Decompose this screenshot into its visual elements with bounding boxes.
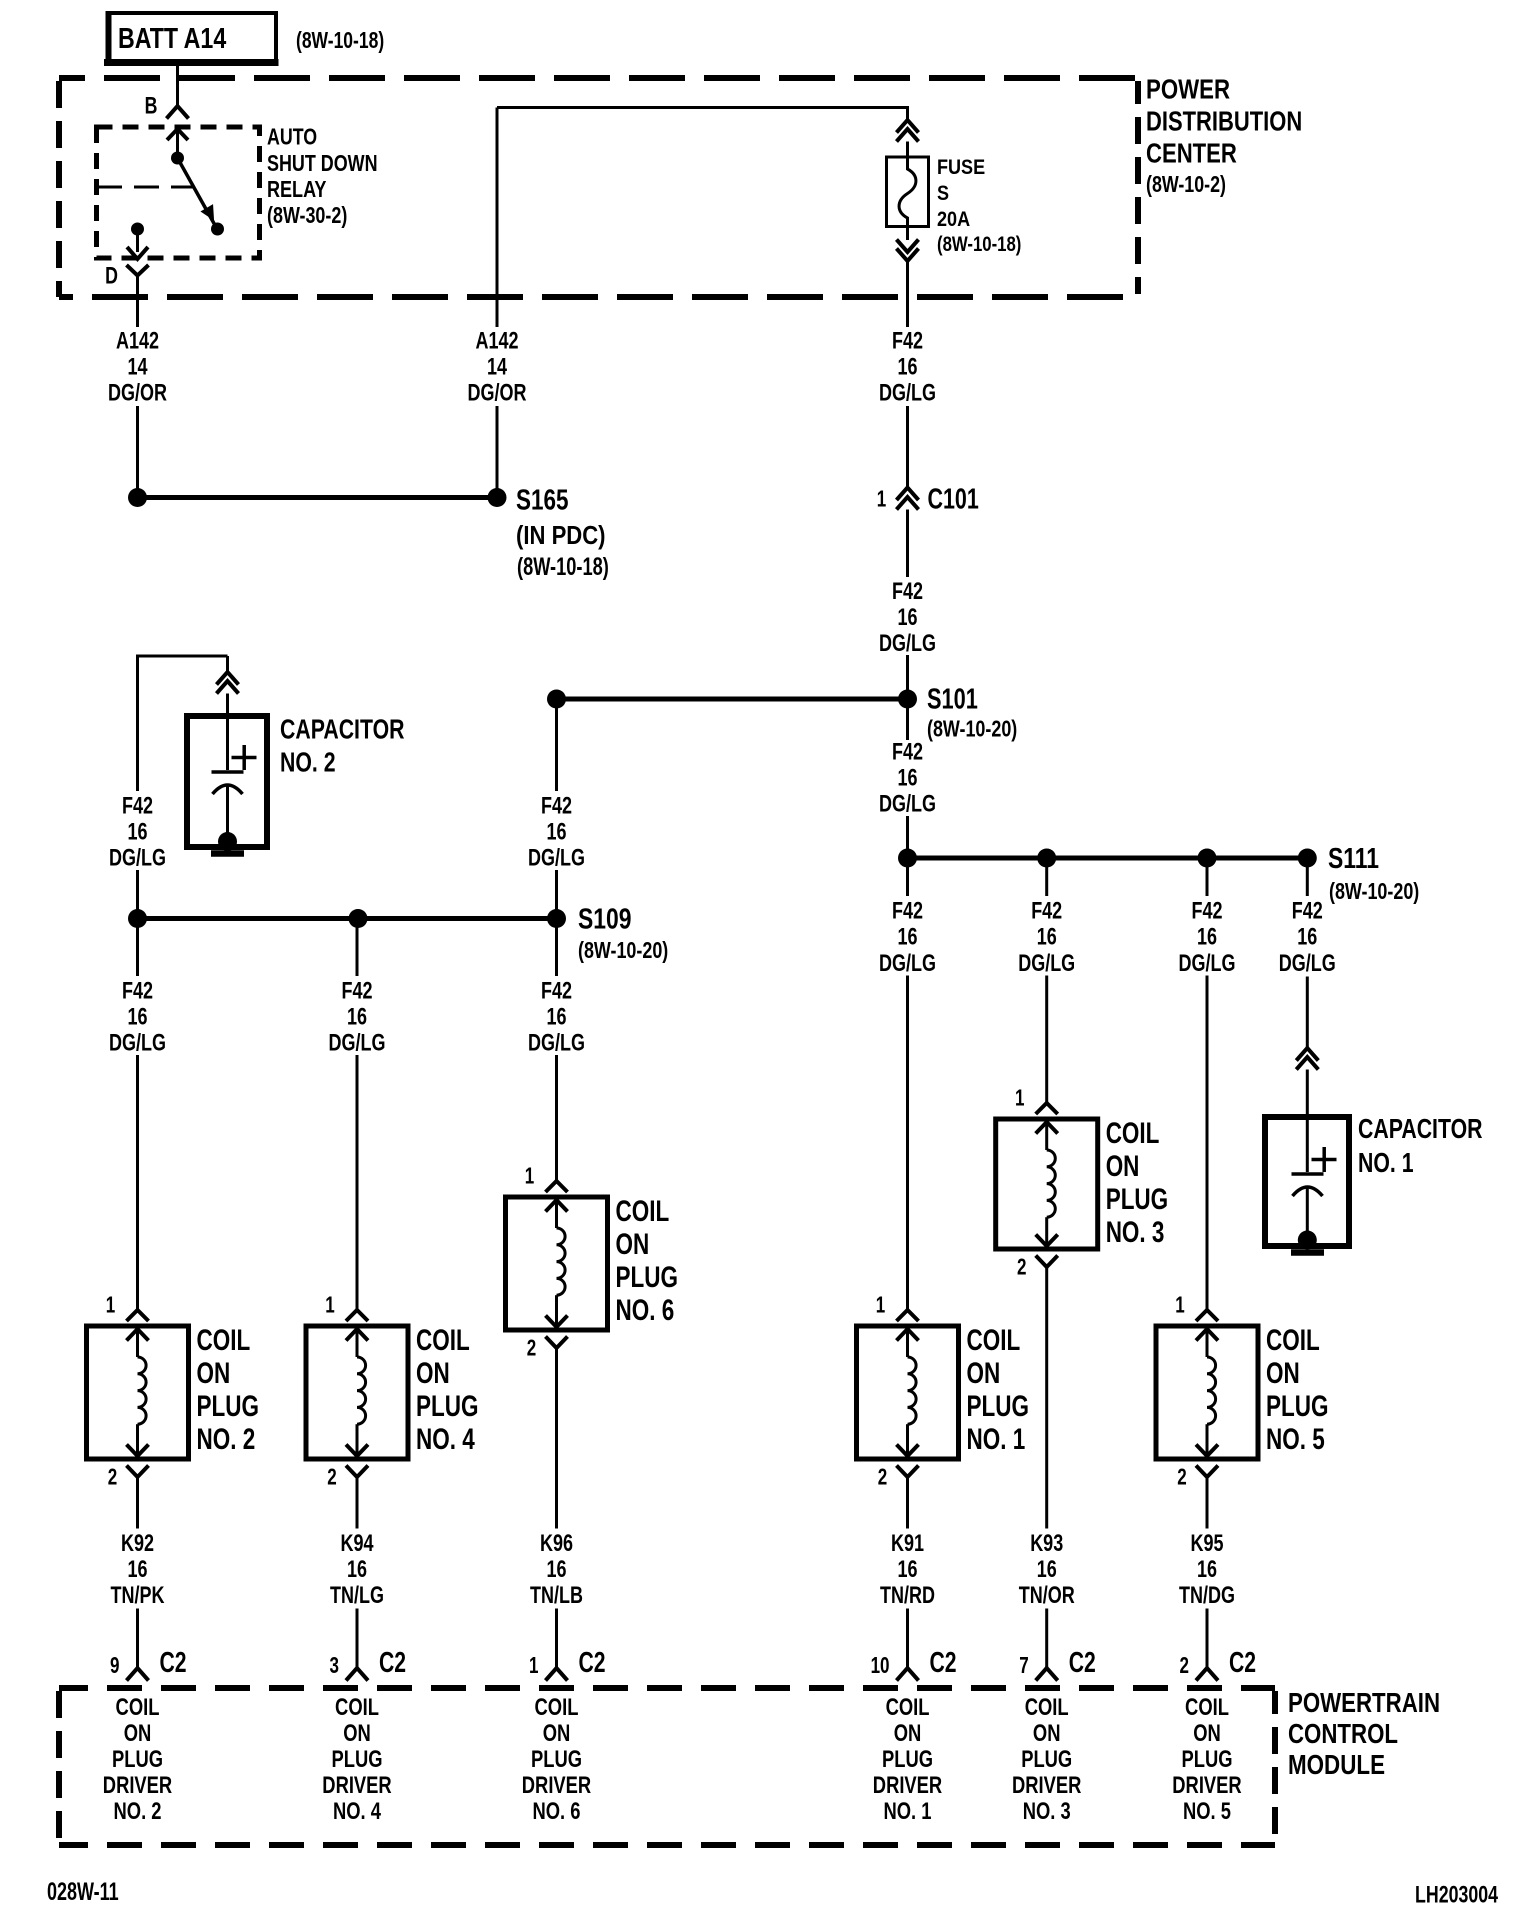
svg-text:TN/LB: TN/LB bbox=[530, 1583, 583, 1609]
connector C2 pin 7 bbox=[1019, 1609, 1096, 1681]
label COIL ON PLUG DRIVER NO. 5 bbox=[1172, 1692, 1242, 1824]
svg-text:TN/RD: TN/RD bbox=[880, 1583, 935, 1609]
svg-text:1: 1 bbox=[325, 1293, 334, 1318]
label COIL ON PLUG NO. 4 bbox=[416, 1323, 478, 1456]
wire capacitor no 2 feed bbox=[109, 655, 227, 911]
svg-text:F42: F42 bbox=[892, 328, 923, 354]
svg-text:MODULE: MODULE bbox=[1288, 1750, 1385, 1781]
svg-text:1: 1 bbox=[106, 1293, 115, 1318]
svg-text:DG/LG: DG/LG bbox=[879, 631, 936, 657]
svg-text:C2: C2 bbox=[160, 1647, 187, 1679]
svg-text:F42: F42 bbox=[122, 793, 153, 819]
label POWER DISTRIBUTION CENTER bbox=[1146, 74, 1302, 197]
svg-text:K91: K91 bbox=[891, 1531, 924, 1557]
wire fuse to C101 bbox=[906, 406, 909, 488]
wire label K96 16 TN/LB bbox=[530, 1531, 583, 1609]
svg-text:ON: ON bbox=[616, 1227, 650, 1261]
svg-text:ON: ON bbox=[343, 1718, 371, 1746]
svg-text:COIL: COIL bbox=[1106, 1116, 1160, 1150]
svg-text:S165: S165 bbox=[516, 485, 568, 516]
svg-text:DG/OR: DG/OR bbox=[108, 380, 167, 406]
splice S101 bbox=[547, 684, 1017, 742]
ignition coil on plug no 2 bbox=[87, 1326, 189, 1459]
svg-text:NO. 5: NO. 5 bbox=[1266, 1422, 1325, 1456]
svg-text:F42: F42 bbox=[1031, 898, 1062, 924]
connector pin 1 of coil no 5 bbox=[1175, 1293, 1218, 1321]
wire feed to fuse bbox=[497, 106, 908, 109]
svg-text:(8W-10-18): (8W-10-18) bbox=[517, 552, 609, 581]
svg-text:CENTER: CENTER bbox=[1146, 138, 1237, 169]
svg-text:A142: A142 bbox=[116, 328, 159, 354]
svg-text:(8W-10-20): (8W-10-20) bbox=[927, 717, 1017, 743]
label COIL ON PLUG DRIVER NO. 2 bbox=[103, 1692, 173, 1824]
svg-text:C2: C2 bbox=[930, 1647, 957, 1679]
svg-text:16: 16 bbox=[127, 1004, 147, 1030]
relay pivot contact bbox=[171, 152, 184, 165]
svg-text:(8W-30-2): (8W-30-2) bbox=[267, 203, 347, 229]
svg-text:CAPACITOR: CAPACITOR bbox=[1358, 1113, 1483, 1145]
svg-text:ON: ON bbox=[196, 1356, 230, 1390]
svg-text:16: 16 bbox=[1297, 924, 1317, 950]
svg-text:DG/LG: DG/LG bbox=[109, 845, 166, 871]
svg-text:S111: S111 bbox=[1328, 841, 1379, 874]
svg-text:PLUG: PLUG bbox=[1181, 1744, 1232, 1772]
splice S109 bbox=[128, 902, 668, 964]
connector pin D bbox=[105, 263, 148, 327]
connector C2 pin 2 bbox=[1180, 1609, 1257, 1681]
in-line connector out of PDC bbox=[897, 227, 919, 328]
svg-text:S: S bbox=[937, 182, 949, 206]
svg-text:BATT A14: BATT A14 bbox=[118, 22, 227, 55]
svg-text:9: 9 bbox=[110, 1654, 119, 1679]
footer reference 028W-11 bbox=[47, 1877, 119, 1906]
svg-text:1: 1 bbox=[876, 1293, 885, 1318]
svg-text:DG/OR: DG/OR bbox=[468, 380, 527, 406]
svg-text:DISTRIBUTION: DISTRIBUTION bbox=[1146, 106, 1302, 137]
svg-text:NO. 5: NO. 5 bbox=[1183, 1796, 1231, 1824]
svg-text:(8W-10-20): (8W-10-20) bbox=[1329, 879, 1419, 905]
svg-text:2: 2 bbox=[1180, 1654, 1189, 1679]
svg-text:2: 2 bbox=[327, 1465, 336, 1490]
label COIL ON PLUG NO. 1 bbox=[966, 1323, 1028, 1456]
svg-text:COIL: COIL bbox=[886, 1692, 930, 1720]
svg-text:D: D bbox=[105, 263, 118, 289]
in-line connector to capacitor no 2 bbox=[217, 656, 239, 717]
in-line connector at PDC (fuse feed) bbox=[897, 106, 919, 157]
svg-text:(8W-10-18): (8W-10-18) bbox=[937, 233, 1021, 256]
label CAPACITOR NO. 1 bbox=[1358, 1113, 1483, 1179]
svg-text:TN/OR: TN/OR bbox=[1019, 1583, 1075, 1609]
svg-text:16: 16 bbox=[897, 1557, 917, 1583]
svg-text:COIL: COIL bbox=[1185, 1692, 1229, 1720]
fuse S 20A bbox=[887, 157, 929, 227]
wire label K95 16 TN/DG bbox=[1179, 1531, 1235, 1609]
svg-text:DG/LG: DG/LG bbox=[879, 791, 936, 817]
label CAPACITOR NO. 2 bbox=[280, 714, 405, 779]
label COIL ON PLUG DRIVER NO. 1 bbox=[873, 1692, 943, 1824]
svg-text:F42: F42 bbox=[892, 739, 923, 765]
svg-text:CONTROL: CONTROL bbox=[1288, 1719, 1398, 1750]
wire label K92 16 TN/PK bbox=[111, 1531, 166, 1609]
label COIL ON PLUG DRIVER NO. 6 bbox=[522, 1692, 592, 1824]
svg-text:ON: ON bbox=[894, 1718, 922, 1746]
wire label K91 16 TN/RD bbox=[880, 1531, 935, 1609]
svg-text:PLUG: PLUG bbox=[196, 1389, 258, 1423]
footer reference LH203004 bbox=[1415, 1882, 1498, 1908]
label COIL ON PLUG DRIVER NO. 4 bbox=[322, 1692, 392, 1824]
svg-text:TN/PK: TN/PK bbox=[111, 1583, 166, 1609]
svg-text:F42: F42 bbox=[541, 793, 572, 819]
svg-text:16: 16 bbox=[897, 924, 917, 950]
svg-text:16: 16 bbox=[897, 354, 917, 380]
wire label F42 16 DG/LG (fuse) bbox=[879, 328, 936, 406]
svg-text:RELAY: RELAY bbox=[267, 177, 327, 203]
connector pin 1 of coil no 2 bbox=[106, 1293, 149, 1321]
svg-text:K92: K92 bbox=[121, 1531, 154, 1557]
wire label K94 16 TN/LG bbox=[330, 1531, 384, 1609]
svg-text:PLUG: PLUG bbox=[112, 1744, 163, 1772]
svg-text:ON: ON bbox=[1033, 1718, 1061, 1746]
connector pin 2 of coil no 3 bbox=[1017, 1255, 1058, 1528]
svg-text:F42: F42 bbox=[122, 978, 153, 1004]
connector C2 pin 3 bbox=[330, 1609, 407, 1681]
wire to coil no 6 bbox=[528, 927, 585, 1181]
svg-text:C2: C2 bbox=[579, 1647, 606, 1679]
label COIL ON PLUG NO. 5 bbox=[1266, 1323, 1328, 1456]
svg-text:NO. 1: NO. 1 bbox=[1358, 1147, 1414, 1179]
svg-text:PLUG: PLUG bbox=[1106, 1182, 1168, 1216]
label POWERTRAIN CONTROL MODULE bbox=[1288, 1688, 1440, 1781]
label COIL ON PLUG NO. 3 bbox=[1106, 1116, 1168, 1249]
svg-text:14: 14 bbox=[487, 354, 507, 380]
svg-text:ON: ON bbox=[416, 1356, 450, 1390]
svg-text:PLUG: PLUG bbox=[416, 1389, 478, 1423]
svg-text:CAPACITOR: CAPACITOR bbox=[280, 714, 405, 746]
svg-text:C2: C2 bbox=[379, 1647, 406, 1679]
connector pin 2 of coil no 4 bbox=[327, 1465, 368, 1528]
svg-text:ON: ON bbox=[966, 1356, 1000, 1390]
svg-text:NO. 2: NO. 2 bbox=[114, 1796, 162, 1824]
svg-text:PLUG: PLUG bbox=[616, 1260, 678, 1294]
power source box BATT A14 bbox=[104, 11, 279, 66]
svg-text:16: 16 bbox=[127, 1557, 147, 1583]
svg-text:NO. 4: NO. 4 bbox=[333, 1796, 381, 1824]
svg-text:DRIVER: DRIVER bbox=[522, 1770, 592, 1798]
svg-text:PLUG: PLUG bbox=[1266, 1389, 1328, 1423]
svg-text:POWER: POWER bbox=[1146, 74, 1230, 105]
connector C101 pin 1 bbox=[877, 483, 979, 515]
svg-text:NO. 3: NO. 3 bbox=[1023, 1796, 1071, 1824]
svg-text:16: 16 bbox=[127, 819, 147, 845]
svg-text:C2: C2 bbox=[1229, 1647, 1256, 1679]
svg-text:DRIVER: DRIVER bbox=[873, 1770, 943, 1798]
svg-text:16: 16 bbox=[347, 1557, 367, 1583]
connector C2 pin 1 bbox=[529, 1609, 606, 1681]
svg-text:A142: A142 bbox=[475, 328, 518, 354]
connector pin 1 of coil no 3 bbox=[1015, 1086, 1058, 1114]
auto shut down relay box bbox=[97, 127, 260, 258]
svg-text:COIL: COIL bbox=[1025, 1692, 1069, 1720]
svg-text:2: 2 bbox=[1017, 1255, 1026, 1280]
splice S165 bbox=[128, 485, 609, 581]
connector pin 2 of coil no 6 bbox=[527, 1336, 568, 1528]
svg-text:K93: K93 bbox=[1030, 1531, 1063, 1557]
svg-text:DRIVER: DRIVER bbox=[103, 1770, 173, 1798]
svg-text:NO. 6: NO. 6 bbox=[616, 1293, 675, 1327]
svg-text:COIL: COIL bbox=[116, 1692, 160, 1720]
svg-text:F42: F42 bbox=[341, 978, 372, 1004]
svg-text:LH203004: LH203004 bbox=[1415, 1882, 1498, 1908]
wire to coil no 4 bbox=[329, 927, 386, 1310]
connector pin 2 of coil no 2 bbox=[108, 1465, 149, 1528]
svg-text:3: 3 bbox=[330, 1654, 339, 1679]
svg-text:COIL: COIL bbox=[416, 1323, 470, 1357]
svg-text:NO. 2: NO. 2 bbox=[280, 747, 336, 779]
ignition coil on plug no 3 bbox=[996, 1119, 1098, 1249]
svg-text:NO. 6: NO. 6 bbox=[533, 1796, 581, 1824]
wire label K93 16 TN/OR bbox=[1019, 1531, 1075, 1609]
svg-text:ON: ON bbox=[124, 1718, 152, 1746]
relay common terminal arrow bbox=[167, 129, 188, 153]
svg-text:16: 16 bbox=[546, 1557, 566, 1583]
svg-text:DG/LG: DG/LG bbox=[879, 951, 936, 977]
label AUTO SHUT DOWN RELAY bbox=[267, 124, 378, 228]
Power Distribution Center box bbox=[59, 78, 1138, 297]
connector pin B bbox=[145, 93, 189, 119]
wire to coil no 3 bbox=[1018, 867, 1075, 1103]
svg-text:DG/LG: DG/LG bbox=[109, 1030, 166, 1056]
svg-text:NO. 1: NO. 1 bbox=[966, 1422, 1025, 1456]
relay switch arm bbox=[178, 158, 217, 227]
wire to coil no 2 bbox=[109, 927, 166, 1310]
svg-text:16: 16 bbox=[546, 1004, 566, 1030]
svg-text:COIL: COIL bbox=[966, 1323, 1020, 1357]
connector C2 pin 10 bbox=[871, 1609, 957, 1681]
wire BATT A14 to pin B bbox=[176, 64, 179, 106]
svg-text:1: 1 bbox=[529, 1654, 538, 1679]
svg-text:16: 16 bbox=[1037, 1557, 1057, 1583]
wire to coil no 1 bbox=[879, 867, 936, 1310]
svg-text:F42: F42 bbox=[892, 898, 923, 924]
svg-text:DG/LG: DG/LG bbox=[1179, 951, 1236, 977]
svg-text:20A: 20A bbox=[937, 208, 970, 232]
label FUSE S 20A bbox=[937, 156, 1021, 257]
svg-text:COIL: COIL bbox=[535, 1692, 579, 1720]
svg-text:2: 2 bbox=[108, 1465, 117, 1490]
svg-text:(8W-10-20): (8W-10-20) bbox=[578, 938, 668, 964]
wire S111 to capacitor no 1 bbox=[1279, 867, 1336, 1048]
svg-text:1: 1 bbox=[525, 1164, 534, 1189]
svg-text:SHUT DOWN: SHUT DOWN bbox=[267, 151, 378, 177]
svg-text:DRIVER: DRIVER bbox=[1012, 1770, 1082, 1798]
svg-text:PLUG: PLUG bbox=[531, 1744, 582, 1772]
svg-text:NO. 3: NO. 3 bbox=[1106, 1215, 1165, 1249]
label COIL ON PLUG NO. 2 bbox=[196, 1323, 258, 1456]
svg-text:2: 2 bbox=[878, 1465, 887, 1490]
svg-text:1: 1 bbox=[1015, 1086, 1024, 1111]
svg-text:16: 16 bbox=[546, 819, 566, 845]
label (8W-10-18) for BATT A14 bbox=[296, 27, 384, 53]
svg-text:16: 16 bbox=[1037, 924, 1057, 950]
svg-text:DG/LG: DG/LG bbox=[879, 380, 936, 406]
svg-text:ON: ON bbox=[1106, 1149, 1140, 1183]
svg-text:(8W-10-18): (8W-10-18) bbox=[296, 27, 384, 53]
svg-text:S109: S109 bbox=[578, 902, 631, 935]
svg-text:DG/LG: DG/LG bbox=[1018, 951, 1075, 977]
svg-text:16: 16 bbox=[897, 605, 917, 631]
wire feed branch in PDC bbox=[496, 108, 499, 328]
in-line connector to capacitor no 1 bbox=[1296, 1048, 1318, 1118]
svg-text:ON: ON bbox=[543, 1718, 571, 1746]
relay NO contact bbox=[211, 223, 224, 236]
svg-text:16: 16 bbox=[897, 765, 917, 791]
svg-text:1: 1 bbox=[877, 487, 886, 512]
svg-text:DRIVER: DRIVER bbox=[1172, 1770, 1242, 1798]
wire to coil no 5 bbox=[1179, 867, 1236, 1310]
svg-text:DG/LG: DG/LG bbox=[528, 1030, 585, 1056]
wire pin D to splice S165 bbox=[136, 406, 139, 490]
svg-text:DG/LG: DG/LG bbox=[1279, 951, 1336, 977]
wire label A142 14 DG/OR (left) bbox=[108, 328, 167, 406]
svg-text:1: 1 bbox=[1175, 1293, 1184, 1318]
ignition coil on plug no 4 bbox=[306, 1326, 408, 1459]
svg-text:7: 7 bbox=[1019, 1654, 1028, 1679]
label COIL ON PLUG DRIVER NO. 3 bbox=[1012, 1692, 1082, 1824]
ignition coil on plug no 6 bbox=[506, 1197, 608, 1330]
svg-text:F42: F42 bbox=[541, 978, 572, 1004]
connector pin 2 of coil no 5 bbox=[1177, 1465, 1218, 1528]
svg-text:F42: F42 bbox=[1191, 898, 1222, 924]
wire C101 to S101 bbox=[879, 510, 936, 691]
connector pin 2 of coil no 1 bbox=[878, 1465, 919, 1528]
connector C2 pin 9 bbox=[110, 1609, 187, 1681]
svg-text:POWERTRAIN: POWERTRAIN bbox=[1288, 1688, 1440, 1719]
wire label A142 14 DG/OR (center) bbox=[468, 328, 527, 406]
ignition coil on plug no 5 bbox=[1156, 1326, 1258, 1459]
svg-text:COIL: COIL bbox=[196, 1323, 250, 1357]
svg-text:NO. 2: NO. 2 bbox=[196, 1422, 255, 1456]
svg-text:NO. 4: NO. 4 bbox=[416, 1422, 475, 1456]
relay output contact bbox=[127, 223, 148, 260]
wire to splice S165 (center) bbox=[496, 406, 499, 490]
svg-text:B: B bbox=[145, 93, 158, 119]
svg-text:TN/LG: TN/LG bbox=[330, 1583, 384, 1609]
svg-text:AUTO: AUTO bbox=[267, 124, 317, 150]
ignition coil on plug no 1 bbox=[857, 1326, 959, 1459]
svg-text:F42: F42 bbox=[1292, 898, 1323, 924]
svg-text:FUSE: FUSE bbox=[937, 156, 985, 180]
svg-text:PLUG: PLUG bbox=[1021, 1744, 1072, 1772]
svg-text:S101: S101 bbox=[927, 684, 978, 716]
svg-text:COIL: COIL bbox=[335, 1692, 379, 1720]
label COIL ON PLUG NO. 6 bbox=[616, 1194, 678, 1327]
Powertrain Control Module box bbox=[59, 1688, 1275, 1845]
svg-text:NO. 1: NO. 1 bbox=[884, 1796, 932, 1824]
svg-text:PLUG: PLUG bbox=[882, 1744, 933, 1772]
svg-text:COIL: COIL bbox=[1266, 1323, 1320, 1357]
svg-text:PLUG: PLUG bbox=[966, 1389, 1028, 1423]
svg-text:028W-11: 028W-11 bbox=[47, 1877, 119, 1906]
svg-text:16: 16 bbox=[1197, 924, 1217, 950]
svg-text:K94: K94 bbox=[340, 1531, 373, 1557]
svg-text:ON: ON bbox=[1193, 1718, 1221, 1746]
svg-text:PLUG: PLUG bbox=[331, 1744, 382, 1772]
connector pin 1 of coil no 1 bbox=[876, 1293, 919, 1321]
svg-text:(8W-10-2): (8W-10-2) bbox=[1146, 172, 1226, 198]
svg-text:COIL: COIL bbox=[616, 1194, 670, 1228]
svg-text:10: 10 bbox=[871, 1654, 890, 1679]
connector pin 1 of coil no 6 bbox=[525, 1164, 568, 1192]
capacitor no 2 bbox=[187, 716, 267, 854]
capacitor no 1 bbox=[1265, 1117, 1349, 1253]
svg-text:16: 16 bbox=[1197, 1557, 1217, 1583]
svg-text:ON: ON bbox=[1266, 1356, 1300, 1390]
svg-text:DG/LG: DG/LG bbox=[528, 845, 585, 871]
splice S111 bbox=[898, 841, 1419, 904]
wire S101 to S109 bbox=[528, 708, 585, 910]
svg-text:DG/LG: DG/LG bbox=[329, 1030, 386, 1056]
connector pin 1 of coil no 4 bbox=[325, 1293, 368, 1321]
svg-text:K96: K96 bbox=[540, 1531, 573, 1557]
svg-text:2: 2 bbox=[1177, 1465, 1186, 1490]
svg-text:C2: C2 bbox=[1069, 1647, 1096, 1679]
wire S101 to S111 bbox=[879, 708, 936, 849]
svg-text:F42: F42 bbox=[892, 579, 923, 605]
svg-text:C101: C101 bbox=[928, 483, 979, 515]
svg-text:K95: K95 bbox=[1190, 1531, 1223, 1557]
svg-text:2: 2 bbox=[527, 1336, 536, 1361]
svg-text:(IN PDC): (IN PDC) bbox=[516, 521, 606, 550]
svg-text:TN/DG: TN/DG bbox=[1179, 1583, 1235, 1609]
svg-text:DRIVER: DRIVER bbox=[322, 1770, 392, 1798]
svg-text:14: 14 bbox=[127, 354, 147, 380]
svg-text:16: 16 bbox=[347, 1004, 367, 1030]
